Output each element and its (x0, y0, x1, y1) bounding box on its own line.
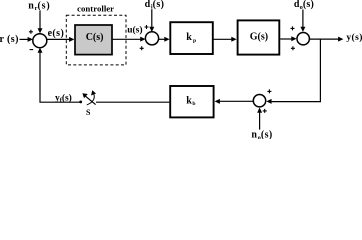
controller dashed box (66, 15, 126, 65)
wire e(s) to C(s) (47, 37, 74, 42)
svg-text:r (s): r (s) (0, 34, 19, 45)
svg-text:e(s): e(s) (48, 28, 65, 39)
svg-text:nr(s): nr(s) (28, 0, 50, 12)
block C(s) (75, 25, 112, 55)
svg-text:S: S (86, 108, 91, 117)
wire junction 4 to k_b (215, 99, 254, 104)
summing junction 3 (291, 26, 310, 50)
wire d_o(s) into junction 3 (300, 10, 305, 32)
svg-text:do(s): do(s) (294, 0, 314, 11)
svg-text:no(s): no(s) (251, 130, 272, 139)
svg-text:b: b (192, 101, 195, 107)
wire k_p to G(s) (213, 37, 236, 42)
summing junction 4 (253, 89, 271, 113)
sampling switch S (79, 90, 96, 105)
wire r(s) to summing junction 1 (20, 37, 33, 42)
wire junction 3 to output y(s) (310, 37, 344, 42)
block k_p (170, 22, 213, 54)
wire C(s) to summing junction 2 (113, 37, 146, 42)
svg-text:controller: controller (77, 4, 114, 14)
wire n_r(s) into junction 1 (38, 11, 43, 34)
svg-text:y(s): y(s) (346, 32, 362, 43)
svg-text:k: k (186, 32, 192, 43)
wire junction 2 to k_p (158, 37, 169, 42)
svg-text:G(s): G(s) (250, 31, 268, 42)
svg-text:C(s): C(s) (86, 32, 104, 43)
svg-text:di(s): di(s) (145, 0, 165, 11)
block k_b (170, 86, 213, 117)
block G(s) (238, 20, 280, 54)
wire G(s) to summing junction 3 (280, 36, 296, 41)
feedback wire from switch to junction 1 (38, 48, 81, 103)
summing junction 2 (140, 25, 159, 50)
svg-text:k: k (186, 95, 192, 106)
wire k_b to switch (96, 101, 169, 103)
feedback tap wire from output down to junction 4 (266, 39, 320, 104)
wire d_i(s) into junction 2 (149, 9, 154, 32)
wire n_o(s) into junction 4 (257, 108, 262, 130)
svg-text:u(s): u(s) (127, 25, 142, 36)
svg-text:p: p (193, 38, 196, 44)
summing junction 1 (29, 30, 47, 50)
